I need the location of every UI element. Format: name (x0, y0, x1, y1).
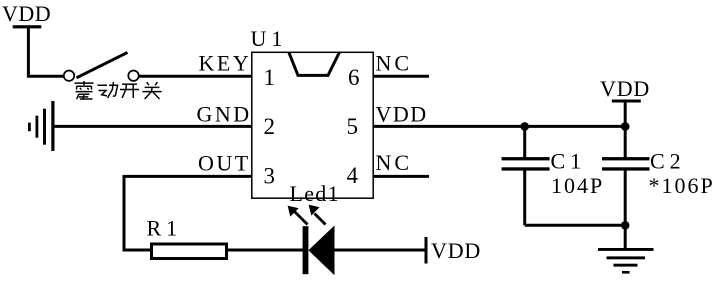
LED Led1 light arrow 1 (288, 206, 308, 225)
动 (98, 82, 118, 98)
svg-text:U1: U1 (251, 26, 288, 51)
IC U1 notch (289, 53, 339, 76)
LED Led1 light arrow 2 (309, 205, 326, 225)
wire C2 bottom stub (624, 170, 627, 225)
svg-text:C1: C1 (551, 149, 587, 174)
power VDD (top right) bar (612, 100, 641, 103)
switch S1 right contact (128, 71, 138, 81)
svg-text:NC: NC (376, 51, 413, 76)
wire switch to KEY pin (139, 75, 252, 78)
capacitor C2 bottom plate (602, 167, 650, 170)
关 (143, 82, 162, 99)
开 (120, 84, 139, 98)
wire VDD terminal down to C2 (624, 102, 627, 158)
switch label 震动开关 (vibration switch) (75, 81, 162, 99)
svg-text:5: 5 (347, 114, 359, 139)
svg-text:1: 1 (264, 65, 276, 90)
junction dot at bottom of C2 (621, 221, 630, 230)
op IC U1 body (252, 52, 373, 198)
wire R1 to LED (226, 249, 304, 252)
svg-text:C2: C2 (650, 149, 686, 174)
wire NC stub pin 6 (373, 75, 429, 78)
svg-text:2: 2 (264, 114, 276, 139)
wire C1 top stub (523, 126, 526, 158)
svg-text:R1: R1 (147, 216, 183, 241)
svg-text:VDD: VDD (2, 1, 51, 26)
junction dot at C2 top (621, 122, 630, 131)
svg-text:KEY: KEY (199, 51, 252, 76)
svg-text:104P: 104P (551, 173, 604, 198)
LED Led1 triangle (308, 226, 334, 276)
wire R1 left (123, 249, 152, 252)
svg-text:Led1: Led1 (290, 181, 340, 206)
svg-text:*106P: *106P (649, 173, 715, 198)
capacitor C2 top plate (602, 157, 650, 160)
svg-text:6: 6 (348, 65, 360, 90)
svg-text:3: 3 (264, 164, 276, 189)
junction dot at C1 top (520, 122, 529, 131)
ground (left) (28, 101, 55, 151)
svg-text:OUT: OUT (198, 151, 251, 176)
wire NC stub pin 4 (373, 175, 429, 178)
resistor R1 body (152, 244, 227, 259)
wire VDD bar to switch (28, 27, 63, 76)
wire OUT pin to R1 (L-shape) (124, 176, 252, 250)
wire bottom net C1 to C2 (525, 224, 626, 227)
svg-text:4: 4 (347, 163, 359, 188)
switch S1 left contact (64, 71, 74, 81)
capacitor C1 top plate (502, 157, 550, 160)
power VDD terminal (right of LED) bar (425, 237, 428, 264)
LED Led1 cathode bar (303, 226, 309, 274)
wire LED to VDD terminal (335, 249, 426, 252)
wire C1 bottom stub (523, 170, 526, 225)
wire down to earth ground (624, 225, 627, 248)
svg-text:VDD: VDD (431, 238, 481, 263)
earth ground (bottom right) (598, 248, 654, 274)
svg-text:NC: NC (376, 150, 413, 175)
wire VDD net pin 5 to capacitors (373, 125, 625, 128)
震 (75, 81, 94, 99)
power VDD (top-left) bar (13, 25, 42, 28)
capacitor C1 bottom plate (502, 167, 550, 170)
wire ground to GND pin (54, 125, 252, 128)
svg-text:VDD: VDD (600, 76, 650, 101)
svg-text:GND: GND (197, 102, 252, 127)
switch S1 arm (77, 53, 128, 78)
svg-text:VDD: VDD (376, 102, 428, 127)
